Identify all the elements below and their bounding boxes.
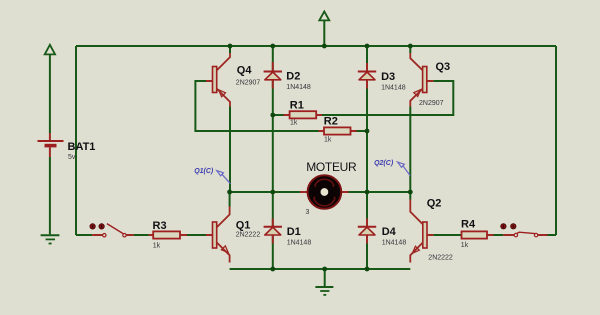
transistor Q2 2N2222 bbox=[410, 198, 453, 263]
svg-text:2N2907: 2N2907 bbox=[236, 80, 261, 87]
svg-text:1N4148: 1N4148 bbox=[381, 85, 406, 92]
svg-text:3: 3 bbox=[306, 209, 310, 216]
probe Q2(C) bbox=[374, 160, 410, 175]
diode D3 1N4148 bbox=[358, 63, 406, 92]
wire bottom rail bbox=[230, 268, 411, 270]
wire motor rail bbox=[230, 191, 411, 193]
diode D4 1N4148 bbox=[358, 219, 407, 247]
wire left vertical bbox=[75, 46, 77, 235]
svg-text:1N4148: 1N4148 bbox=[382, 239, 407, 246]
wire center ground tap bbox=[324, 269, 326, 287]
wire column D2-D1 bbox=[272, 46, 274, 269]
svg-text:D2: D2 bbox=[286, 71, 300, 83]
power symbol left (VCC arrow) bbox=[45, 45, 55, 55]
wire right vertical bbox=[555, 46, 557, 235]
svg-text:Q1(C): Q1(C) bbox=[194, 168, 214, 175]
svg-text:2N2222: 2N2222 bbox=[236, 231, 261, 238]
wire Q3 emitter to Q2 collector column bbox=[409, 46, 411, 200]
junction dots bbox=[227, 44, 412, 272]
svg-text:R1: R1 bbox=[290, 99, 304, 111]
motor MOTEUR bbox=[300, 160, 357, 216]
svg-text:1N4148: 1N4148 bbox=[286, 84, 311, 91]
transistor Q3 2N2907 bbox=[410, 53, 450, 107]
wire Q4 emitter to Q1 collector column bbox=[229, 46, 231, 207]
ground (left, battery) bbox=[41, 235, 60, 243]
svg-text:2N2222: 2N2222 bbox=[428, 255, 453, 262]
svg-text:R4: R4 bbox=[461, 219, 476, 231]
resistor R4 bbox=[461, 219, 494, 250]
wire Q4 base loop to R2 bbox=[195, 81, 367, 131]
resistor R2 bbox=[319, 115, 357, 143]
svg-text:1k: 1k bbox=[324, 136, 332, 143]
svg-text:5v: 5v bbox=[68, 154, 76, 161]
svg-text:D3: D3 bbox=[381, 71, 395, 83]
wire left switch row bbox=[76, 234, 206, 236]
wire top power stem bbox=[323, 20, 325, 46]
svg-text:Q2(C): Q2(C) bbox=[374, 160, 394, 167]
svg-text:Q3: Q3 bbox=[436, 61, 451, 73]
transistor Q4 2N2907 bbox=[206, 53, 260, 107]
svg-text:1k: 1k bbox=[153, 243, 161, 250]
switch SW1 (left) bbox=[90, 224, 134, 237]
svg-text:1k: 1k bbox=[290, 120, 298, 127]
svg-text:D4: D4 bbox=[382, 226, 397, 238]
diode D2 1N4148 bbox=[264, 62, 311, 91]
resistor R3 bbox=[149, 220, 187, 250]
wire column D3-D4 bbox=[366, 46, 368, 269]
svg-text:1k: 1k bbox=[461, 242, 469, 249]
svg-text:MOTEUR: MOTEUR bbox=[306, 160, 357, 174]
probe Q1(C) bbox=[194, 168, 230, 184]
svg-text:D1: D1 bbox=[287, 226, 301, 238]
battery BAT1 bbox=[38, 133, 96, 161]
svg-text:Q1: Q1 bbox=[236, 219, 251, 231]
wire right switch row bbox=[433, 234, 556, 236]
svg-text:Q4: Q4 bbox=[237, 65, 253, 77]
svg-text:R2: R2 bbox=[324, 115, 338, 127]
power symbol top (VCC arrow) bbox=[319, 12, 329, 21]
wire R1 to Q3 base loop bbox=[273, 81, 454, 115]
svg-text:1N4148: 1N4148 bbox=[287, 239, 312, 246]
svg-text:R3: R3 bbox=[153, 220, 167, 232]
svg-text:Q2: Q2 bbox=[427, 198, 442, 210]
svg-text:BAT1: BAT1 bbox=[68, 141, 96, 153]
switch SW2 (right) bbox=[501, 224, 548, 237]
diode D1 1N4148 bbox=[264, 219, 312, 247]
wire top rail bbox=[76, 45, 556, 47]
svg-text:2N2907: 2N2907 bbox=[419, 100, 444, 107]
resistor R1 bbox=[284, 99, 323, 126]
ground (center) bbox=[315, 287, 333, 295]
transistor Q1 2N2222 bbox=[206, 207, 260, 263]
wire battery to ground bbox=[49, 54, 51, 234]
